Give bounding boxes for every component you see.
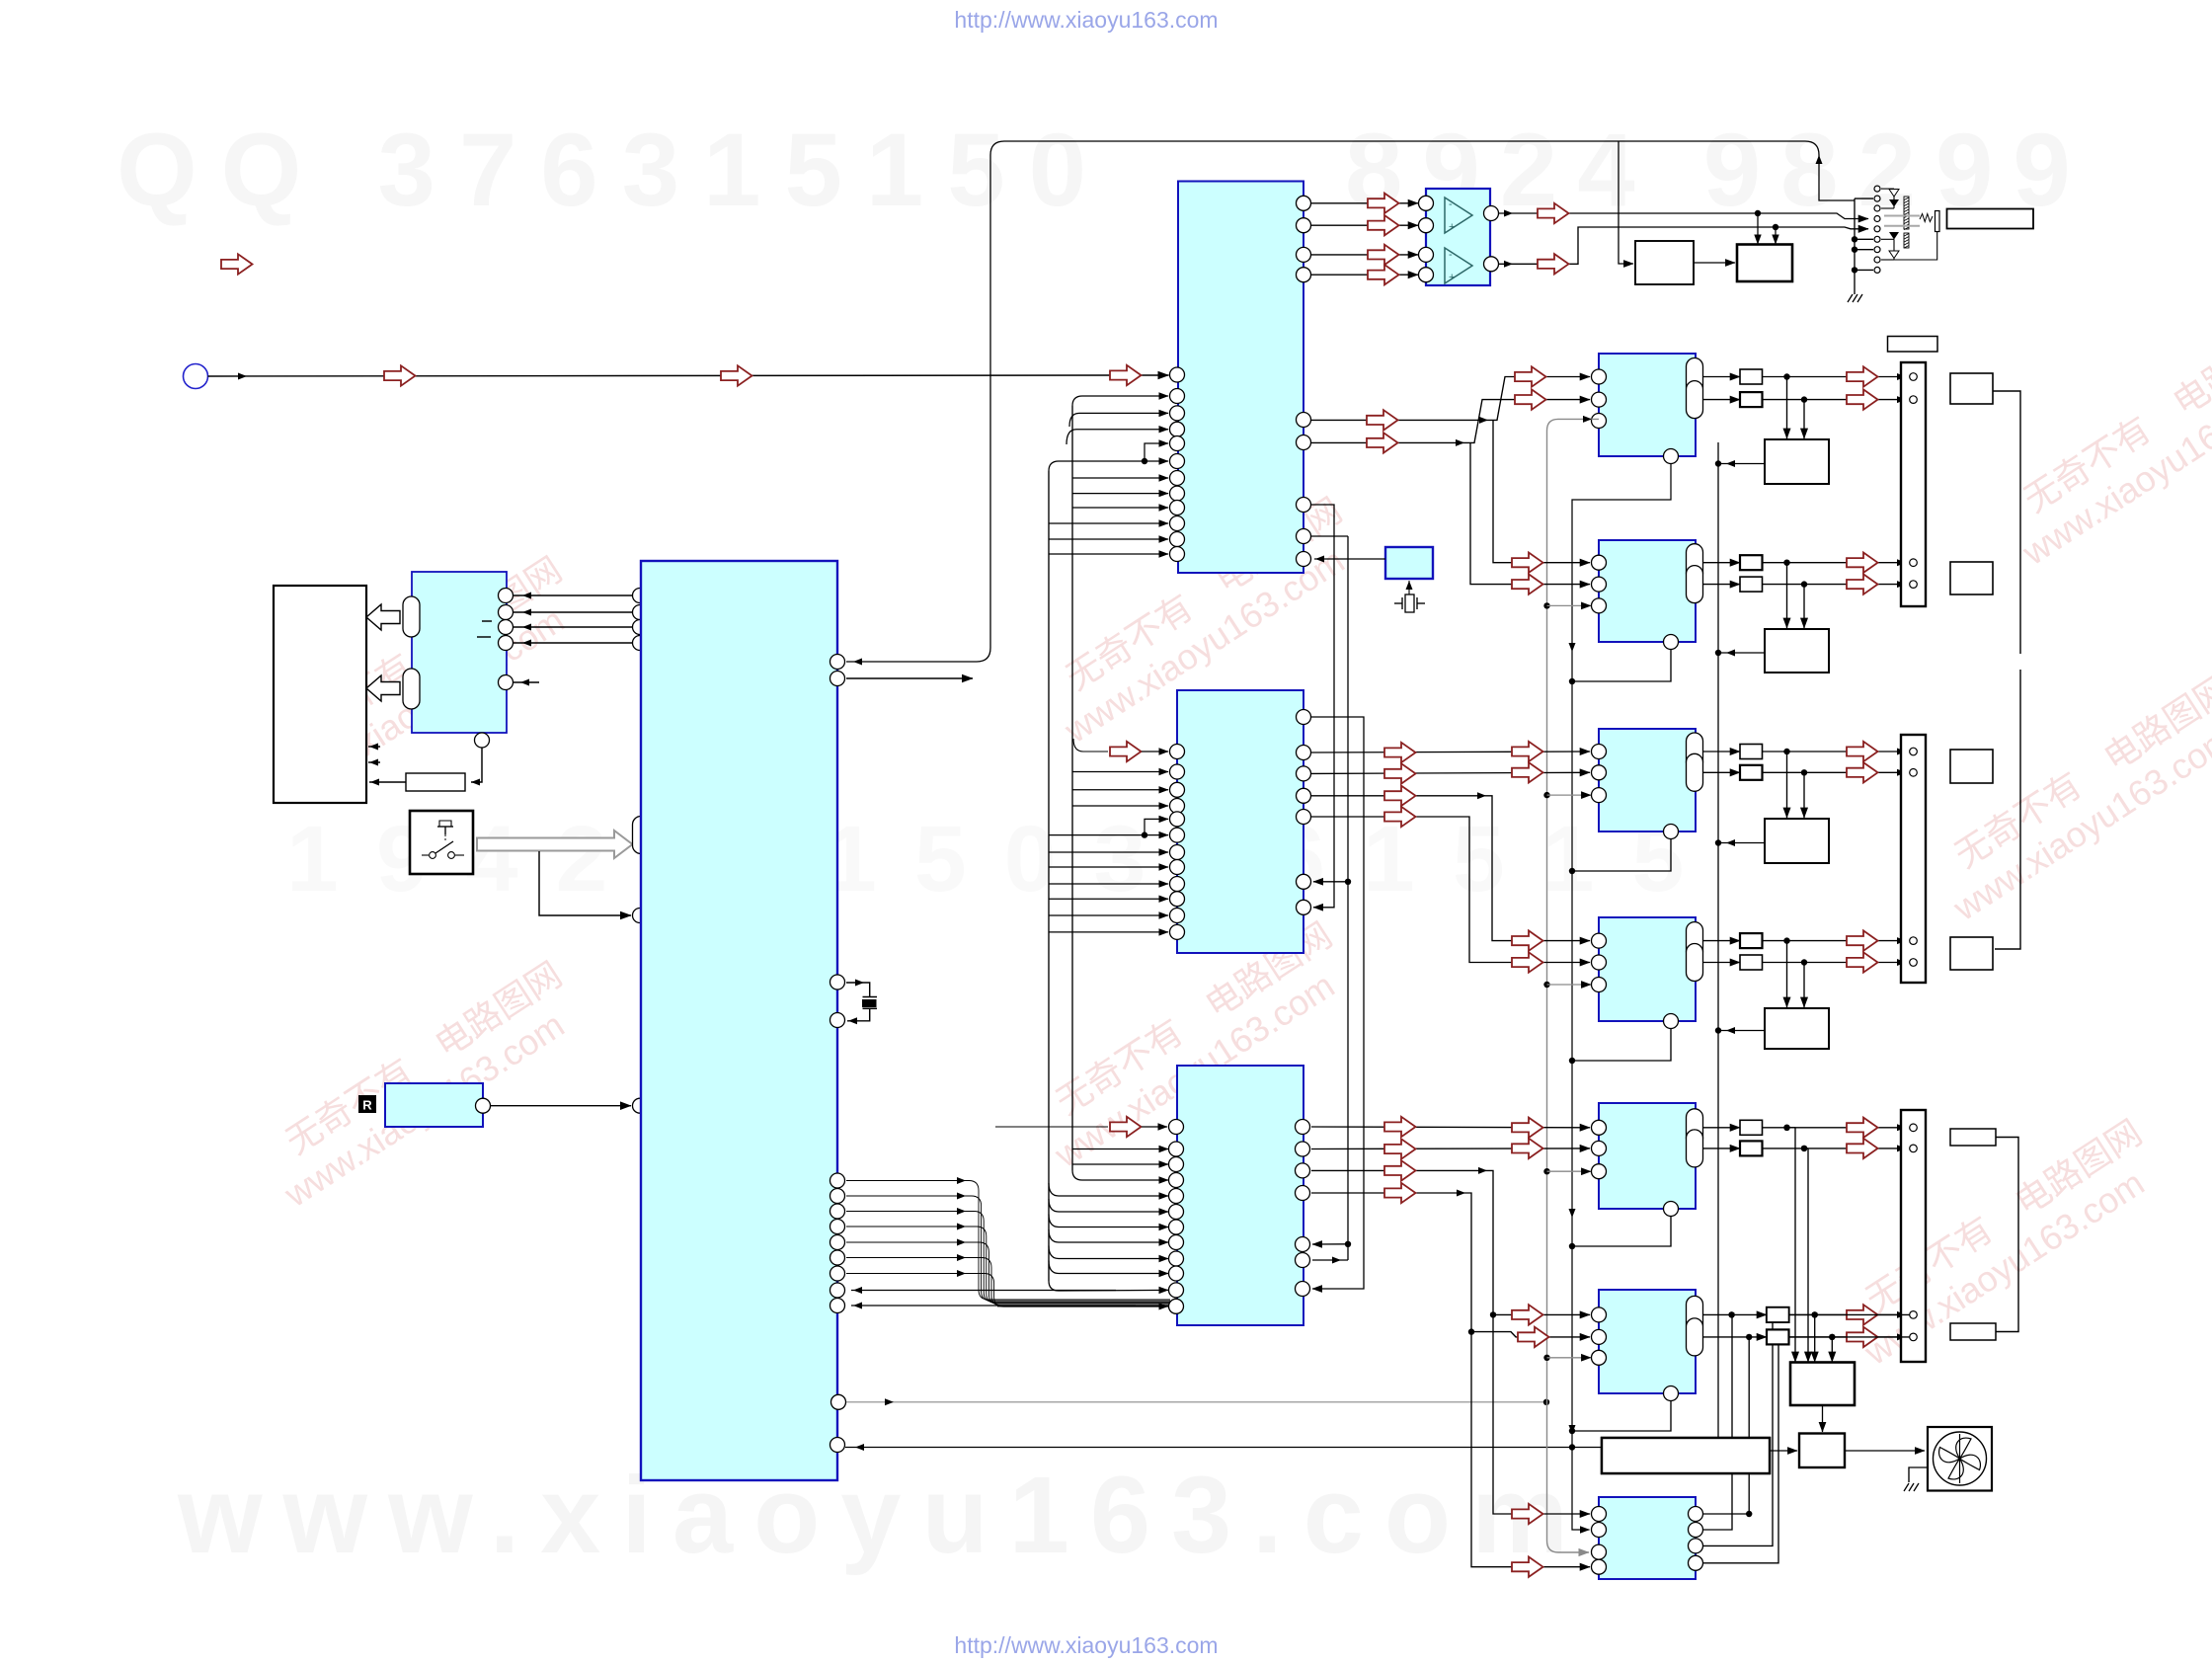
IC U1 system microcontroller xyxy=(641,561,837,1480)
pin U1 left display bus xyxy=(633,589,648,603)
resistor LPF PA4-2 xyxy=(1740,955,1763,970)
capsule PA1 outputs xyxy=(1687,358,1703,396)
wire PA3 det to protect bus xyxy=(1720,842,1765,844)
wire PA1 det to protect bus xyxy=(1720,463,1765,465)
block C display unit xyxy=(274,586,366,803)
pin B outputs xyxy=(499,589,513,603)
wire PA5 out1 xyxy=(1703,1127,1741,1129)
arrow up marker on jack drop xyxy=(1816,155,1823,164)
wire U3 out2 to PA3 in2 xyxy=(1311,772,1590,773)
pin PA5 inputs xyxy=(1592,1120,1607,1135)
switch S1 power box xyxy=(410,811,473,874)
pin PA1 bottom xyxy=(1664,449,1679,464)
wire PA3 out1 xyxy=(1703,751,1741,752)
block headphone amp box xyxy=(1635,241,1694,284)
arrow markers on bottom-pin bus xyxy=(1569,643,1576,652)
wire protect line into long box xyxy=(1612,1444,1620,1451)
wire PA6 out1 xyxy=(1703,1313,1768,1315)
diode pair tip switch xyxy=(1881,188,1894,190)
wire bus branch U2 lower pins xyxy=(1072,477,1168,479)
svg-text:www.xiaoyu163.com: www.xiaoyu163.com xyxy=(177,1455,1589,1576)
wire PA5 out2 xyxy=(1703,1148,1741,1149)
block PA2 protection det box xyxy=(1765,629,1829,673)
wire U3U4 aux verticals xyxy=(1311,505,1334,908)
connector CN2 speakers CTR xyxy=(1901,735,1926,983)
wire hp box to relay xyxy=(1694,262,1735,264)
block speaker CTR box xyxy=(1950,750,1993,783)
resistor LPF PA2-2 xyxy=(1740,577,1763,592)
pin U3 left column xyxy=(1170,745,1185,759)
svg-text:QQ 376315150: QQ 376315150 xyxy=(117,113,1110,228)
arrow PA4 speaker out pair xyxy=(1847,930,1878,950)
fan M1 xyxy=(1928,1427,1992,1491)
svg-text:+: + xyxy=(1449,221,1455,233)
wire PA2 taps to det box xyxy=(1786,563,1788,628)
wire U3 out4 to PA4 in2 xyxy=(1311,817,1590,963)
crystal X1 xyxy=(846,983,870,996)
wire branch to PA2 in2 xyxy=(1470,442,1590,584)
wire U2 to opamp inputs xyxy=(1311,202,1418,204)
arrow PA6 speaker out pair xyxy=(1847,1305,1878,1324)
IC PA6 power amp block xyxy=(1599,1290,1696,1393)
arrow U3 input xyxy=(1110,742,1142,761)
wire PA5 taps to big det box xyxy=(1783,1125,1789,1131)
wire top line branch to hp box xyxy=(1619,141,1633,264)
connector CN1 speakers FR xyxy=(1901,362,1926,606)
resistor LPF PA6 redraw over ties xyxy=(1767,1307,1789,1322)
mute bus branches xyxy=(1543,602,1549,608)
pin PA3 bottom xyxy=(1664,825,1679,839)
jack contact bar hatched xyxy=(1904,197,1909,229)
wire PA1 taps to det box xyxy=(1786,377,1788,439)
arrow PA1 speaker out pair xyxy=(1847,366,1878,386)
pin U1 IR in xyxy=(633,1098,648,1113)
resistor LPF PA5-1 xyxy=(1740,1120,1763,1135)
icon IR label xyxy=(358,1095,376,1113)
wire headphone L line xyxy=(1499,213,1868,219)
wire jack ground chain xyxy=(1855,198,1873,199)
wire PA7 out4 tie xyxy=(1703,1337,1778,1563)
label box CN3b xyxy=(1950,1323,1996,1340)
wire U1 to top bus line xyxy=(846,141,1855,662)
arrow PA5 speaker out pair xyxy=(1847,1118,1878,1138)
capsule PA5 outputs xyxy=(1687,1109,1703,1147)
wire driver to fan xyxy=(1845,1450,1925,1452)
pin U4 right column xyxy=(1296,1120,1310,1135)
label box CN3a xyxy=(1950,1129,1996,1146)
pin U5 inputs xyxy=(1419,196,1434,210)
wire X2 to U2 xyxy=(1314,558,1385,560)
svg-text:R: R xyxy=(362,1098,372,1113)
wire IR to U1 xyxy=(491,1105,631,1107)
arrow power-on big gray xyxy=(477,831,633,858)
wire U3 clock loop to U4 xyxy=(1311,717,1364,1289)
IC PA2 power amp block xyxy=(1599,540,1696,642)
IC PA4 power amp block xyxy=(1599,917,1696,1021)
wire B-U1 bus 4 lines xyxy=(513,594,633,596)
wire U3 out3 to PA4 in1 xyxy=(1311,796,1590,941)
block speaker SW box xyxy=(1950,937,1993,970)
wire U3 out1 to PA3 in1 xyxy=(1311,752,1590,752)
wire det to driver xyxy=(1822,1405,1824,1432)
resistor LPF PA6-1 xyxy=(1767,1307,1789,1322)
resistor LPF PA3-1 xyxy=(1740,745,1763,759)
capsule PA4 outputs xyxy=(1687,922,1703,960)
pin PA1 inputs xyxy=(1592,369,1607,384)
pin IR out xyxy=(476,1098,491,1113)
wire PA1 out2 xyxy=(1703,399,1741,401)
wire I2S bus track B xyxy=(1071,406,1073,1170)
wire U2 pin5-6 branch junction xyxy=(1142,458,1147,464)
resistor LPF PA4-1 xyxy=(1740,933,1763,948)
block speaker FL box xyxy=(1950,562,1993,594)
wire PA6 taps to big det box xyxy=(1812,1311,1818,1317)
block big protection detector xyxy=(1790,1363,1855,1406)
arrow block to display 1 xyxy=(366,604,400,630)
wire right bracket bottom xyxy=(1996,1138,2018,1332)
pin U1 xtal pair xyxy=(830,975,845,990)
watermark pink diagonal texts xyxy=(253,549,592,811)
wire PA7 out3 tie xyxy=(1703,1314,1773,1545)
block IR receiver xyxy=(385,1083,483,1127)
arrow PA2 speaker out pair xyxy=(1847,553,1878,573)
pin U2 left column xyxy=(1170,367,1185,382)
wire U2 out2 to PA1 in2 xyxy=(1311,400,1590,443)
label box CN1 xyxy=(1888,337,1938,353)
wire amp bottom-pin bus xyxy=(1572,464,1671,1531)
wire U2 out1 to PA1 xyxy=(1311,377,1590,421)
wire muting drive lines to relay box xyxy=(1757,213,1759,244)
resistor LPF PA2-1 xyxy=(1740,555,1763,570)
wire branch to PA2 in1 xyxy=(1493,420,1590,562)
capsule U1 power pin xyxy=(633,817,650,854)
node PA1 sense taps xyxy=(1783,373,1789,379)
wire stubs into C xyxy=(368,746,380,748)
wire bus branch U4 pins xyxy=(1072,1148,1168,1150)
pin PA7 inputs xyxy=(1592,1507,1607,1522)
node PA2 sense taps xyxy=(1783,560,1789,566)
wire PA4 taps to det box xyxy=(1786,941,1788,1007)
connector CN3 speakers SR xyxy=(1901,1110,1926,1362)
svg-text:-: - xyxy=(1449,249,1453,261)
block fan driver xyxy=(1799,1434,1845,1468)
wire PA4 det to protect bus xyxy=(1720,1030,1765,1032)
IC PA7 subwoofer amp xyxy=(1599,1497,1696,1579)
wire PA2 out1 xyxy=(1703,562,1741,564)
wire PA1 out1 xyxy=(1703,376,1741,378)
resistor R-std xyxy=(406,773,465,791)
pin U1 audio out pair xyxy=(830,655,845,670)
pin PA6 bottom xyxy=(1664,1386,1679,1401)
block PA3 protection det box xyxy=(1765,819,1829,863)
wire U1 mute line xyxy=(831,1394,846,1409)
arrow block to display 2 xyxy=(366,675,400,701)
wire PA3 taps to det box xyxy=(1786,752,1788,818)
pin U1 switch sense xyxy=(633,909,648,923)
resistor LPF PA3-2 xyxy=(1740,765,1763,780)
IC U3 PWM processor xyxy=(1177,690,1303,953)
wire bus curves into U2 pins xyxy=(1069,413,1168,427)
wire I2S bus track A xyxy=(1048,471,1050,1281)
wire PA6 out2 xyxy=(1703,1336,1768,1338)
IC PA1 power amp block xyxy=(1599,354,1696,456)
wire PA7 out1 tie xyxy=(1703,1513,1749,1515)
wire B bottom to resistor xyxy=(471,748,482,782)
pin B bottom xyxy=(475,733,490,748)
svg-text:-: - xyxy=(1449,198,1453,210)
pin PA7 outputs xyxy=(1689,1507,1703,1522)
capsule PA2 outputs xyxy=(1687,544,1703,582)
node PA3 sense taps xyxy=(1783,749,1789,754)
svg-text:http://www.xiaoyu163.com: http://www.xiaoyu163.com xyxy=(954,7,1218,33)
op-amp U5B xyxy=(1445,248,1472,283)
wire PA7 out2 tie xyxy=(1703,1314,1732,1530)
wire PA4 out1 xyxy=(1703,940,1741,942)
jack spring zigzag xyxy=(1920,214,1933,222)
block thermal long box xyxy=(1602,1438,1770,1473)
wire PA bottom pin join xyxy=(1574,650,1671,682)
wire PA4 out2 xyxy=(1703,962,1741,964)
wire U1 protect line xyxy=(830,1438,845,1453)
block PA4 protection det box xyxy=(1765,1008,1829,1049)
node PA4 sense taps xyxy=(1783,937,1789,943)
node PA5 sense taps xyxy=(1783,1125,1789,1131)
capsule B left pins xyxy=(403,596,420,637)
switch S1 symbol xyxy=(437,826,453,828)
wire bus branch U3 pins xyxy=(1072,771,1168,773)
svg-text:http://www.xiaoyu163.com: http://www.xiaoyu163.com xyxy=(954,1632,1218,1658)
jack plug shaft gray xyxy=(1884,215,1920,217)
wire U4 out4 to PA6 in2 and SUB in4 xyxy=(1311,1193,1590,1567)
op-amp U5A xyxy=(1445,198,1472,233)
node audio input jack xyxy=(184,364,208,389)
pin U2 right column top audio xyxy=(1297,196,1311,210)
wire PA3 out2 xyxy=(1703,771,1741,773)
wire B aux stub xyxy=(513,681,539,683)
pin U5 outputs xyxy=(1484,206,1499,221)
wire long box to driver xyxy=(1770,1450,1797,1452)
pin PA3 inputs xyxy=(1592,745,1607,759)
block B display driver IC xyxy=(412,572,507,733)
block headphone jack label box xyxy=(1947,209,2034,229)
wire mute bus gray xyxy=(1547,419,1600,1552)
arrow U4 input xyxy=(1110,1117,1142,1137)
capsule PA3 outputs xyxy=(1687,733,1703,770)
arrow input-label xyxy=(221,254,253,274)
wire right bracket top xyxy=(1993,391,2020,654)
pin PA4 inputs xyxy=(1592,933,1607,948)
pin PA2 inputs xyxy=(1592,555,1607,570)
wire PA bottom pin join xyxy=(1574,839,1671,872)
wire U4 out1 to PA5 in1 xyxy=(1311,1126,1590,1129)
pin U3 right column xyxy=(1297,710,1311,725)
connector headphone jack pins xyxy=(1874,186,1880,192)
resistor LPF PA1-1 xyxy=(1740,369,1763,384)
jack tip bar xyxy=(1935,211,1940,232)
tick marks in B xyxy=(482,620,492,622)
wire headphone R line xyxy=(1499,227,1868,264)
wire U1 bus return lines xyxy=(851,1290,1116,1292)
diode pair ring switch xyxy=(1881,238,1894,240)
arrow opamp inputs xyxy=(1368,194,1399,213)
wire resistor to C xyxy=(369,781,406,783)
IC U2 audio DSP xyxy=(1178,182,1303,574)
svg-text:+: + xyxy=(1449,272,1455,283)
wire protect bus vertical xyxy=(1717,442,1719,1437)
wire PA bottom pin join xyxy=(1574,1401,1671,1432)
wire switch branch to U1 xyxy=(539,851,631,915)
ground fan xyxy=(1909,1467,1928,1482)
block PA1 protection det box xyxy=(1765,439,1829,484)
wire PA bottom pin join xyxy=(1574,1217,1671,1247)
resistor LPF PA1-2 xyxy=(1740,392,1763,407)
block muting relay box xyxy=(1737,245,1792,282)
arrow PA3 speaker out pair xyxy=(1847,742,1878,761)
pin PA6 inputs xyxy=(1592,1307,1607,1322)
wire U1 audio 2 stub xyxy=(846,677,973,679)
wire PA bottom pin join xyxy=(1574,1029,1671,1062)
capsule PA6 outputs xyxy=(1687,1296,1703,1333)
node PA6 sense taps xyxy=(1728,1311,1734,1317)
pin PA5 bottom xyxy=(1664,1202,1679,1217)
pin U2 right mid xyxy=(1297,413,1311,428)
wire U4 pin12 from band xyxy=(997,1306,1168,1307)
block thermal long box redraw xyxy=(1602,1438,1770,1473)
pin PA2 bottom xyxy=(1664,635,1679,650)
IC PA5 power amp block xyxy=(1599,1103,1696,1209)
IC PA3 power amp block xyxy=(1599,729,1696,831)
wire jack sleeve to pin8 xyxy=(1881,232,1937,261)
svg-text:1942151503761515: 1942151503761515 xyxy=(286,807,1721,911)
wire PA2 det to protect bus xyxy=(1720,652,1765,654)
resistor LPF PA6-2 xyxy=(1767,1329,1789,1344)
block speaker FR box xyxy=(1950,373,1993,404)
pin B aux xyxy=(499,675,513,690)
op-amp U5 dual buffer block xyxy=(1426,189,1490,285)
ground jack xyxy=(1848,294,1862,302)
pin PA4 bottom xyxy=(1664,1014,1679,1029)
wire PA2 out2 xyxy=(1703,584,1741,586)
wire U1 data bus with bends xyxy=(846,1181,1170,1301)
crystal X2 symbol xyxy=(1408,581,1410,597)
pin U1 data bus pins xyxy=(830,1173,845,1188)
resistor LPF PA5-2 xyxy=(1740,1141,1763,1155)
wire U3 pin5-6 branch with junction xyxy=(1049,834,1168,836)
pin U4 left column xyxy=(1169,1120,1184,1135)
wire U4 out2 to PA5 in2 xyxy=(1311,1148,1590,1150)
wire U4 out3 to PA6 in1 and SUB in1 xyxy=(1311,1170,1590,1514)
IC U4 PWM processor 2 xyxy=(1177,1066,1303,1325)
wire main input line to U2 pin1 xyxy=(208,375,1111,376)
block X2 oscillator module xyxy=(1385,547,1433,579)
